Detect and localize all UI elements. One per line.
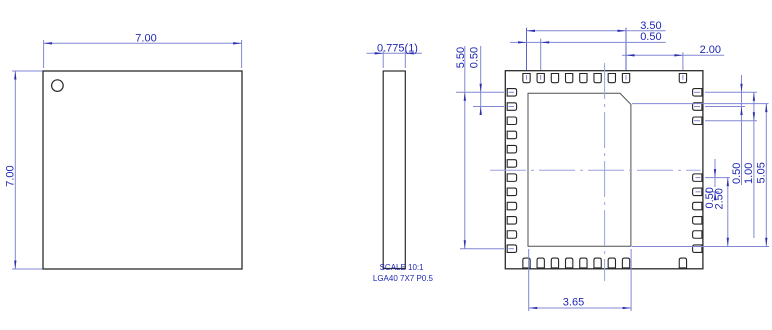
pad right 4	[693, 174, 702, 182]
pad top 6	[594, 74, 601, 83]
svg-text:LGA40 7X7 P0.5: LGA40 7X7 P0.5	[373, 274, 434, 283]
pad bottom 4	[566, 258, 573, 268]
svg-text:2.00: 2.00	[700, 44, 721, 56]
pad top 1	[523, 74, 530, 83]
extension line right pad 5 center	[705, 191, 719, 193]
dimension line 3.50	[527, 30, 666, 32]
extension tick inside top pad 2	[540, 75, 542, 80]
pad right 8	[693, 231, 702, 239]
extension tick inside top pad 1	[526, 75, 528, 80]
pad bottom 3	[551, 258, 558, 268]
dimension line 3.65	[529, 307, 631, 309]
bottom view package body outline	[505, 71, 703, 269]
top view package body outline	[43, 71, 242, 269]
pad right 1	[693, 89, 702, 97]
svg-text:0.50: 0.50	[640, 31, 661, 43]
pad left 11	[507, 231, 516, 239]
extension line exposed pad bottom level	[632, 246, 769, 248]
extension line top pad 9 center	[682, 52, 684, 70]
pad right 5	[693, 188, 702, 196]
dimension line 2.00	[622, 54, 724, 56]
pad bottom 8	[622, 258, 629, 268]
dimension line 5.50 left	[464, 46, 466, 249]
pad right 6	[693, 202, 702, 210]
pad bottom 6	[594, 258, 601, 268]
dimension line 5.05 right	[765, 104, 767, 247]
pad left 1	[507, 89, 516, 97]
extension line chamfer level	[632, 103, 769, 105]
extension line right pad 4 center	[705, 177, 730, 179]
pad bottom 2	[537, 258, 544, 268]
svg-text:7.00: 7.00	[135, 33, 156, 45]
extension line right pad 3 center	[705, 120, 757, 122]
svg-text:0.50: 0.50	[468, 47, 480, 68]
svg-text:SCALE 10:1: SCALE 10:1	[380, 263, 425, 272]
pad left 6	[507, 160, 516, 168]
extension line bottom edge for 7.00 height	[12, 268, 43, 270]
dimension line 0.775 thickness	[367, 52, 422, 54]
extension line left pad 2 center	[473, 106, 504, 108]
extension tick inside top pad 9	[682, 75, 684, 80]
exposed thermal pad outline with chamfer	[528, 93, 631, 246]
pad left 8	[507, 188, 516, 196]
dimension line 0.50 left pitch	[480, 46, 482, 115]
pad right 7	[693, 217, 702, 225]
horizontal centerline	[490, 169, 701, 171]
pad top 7	[608, 74, 615, 83]
extension tick inside left pad 2	[509, 106, 515, 108]
pin 1 marker circle	[52, 80, 64, 92]
dimension line 7.00 height	[14, 71, 16, 269]
svg-text:5.05: 5.05	[755, 162, 767, 183]
pad bottom 1	[523, 258, 530, 268]
dimension line 0.50 inner right	[714, 159, 716, 187]
svg-text:2.50: 2.50	[713, 188, 725, 209]
extension line exposed pad left edge	[528, 249, 530, 311]
pad top 3	[551, 74, 558, 83]
extension line top pad 1 center	[526, 28, 528, 70]
extension line left pad 1 center	[456, 91, 504, 93]
vertical centerline	[604, 63, 606, 281]
svg-text:5.50: 5.50	[455, 47, 467, 68]
svg-text:7.00: 7.00	[5, 165, 17, 186]
extension line top pad 2 center	[540, 39, 542, 70]
extension tick inside top pad 8	[625, 75, 627, 80]
svg-text:0.50: 0.50	[731, 163, 743, 184]
extension tick inside right pad 3	[694, 120, 700, 122]
svg-text:0.775(1): 0.775(1)	[377, 42, 418, 54]
extension line left pad 12 center	[460, 248, 504, 250]
pad right 2	[693, 103, 702, 111]
extension tick inside right pad 4	[696, 177, 701, 179]
pad right 9	[693, 245, 702, 253]
pad left 9	[507, 202, 516, 210]
svg-text:3.65: 3.65	[563, 296, 584, 308]
extension line right for 0.775 thickness	[404, 51, 406, 69]
extension line exposed pad right edge	[630, 249, 632, 311]
side view package body outline	[383, 71, 405, 269]
pad left 3	[507, 117, 516, 125]
pad right 3	[693, 117, 702, 125]
pad bottom 5	[580, 258, 587, 268]
pad top 8	[622, 74, 629, 83]
dimension line 0.50 right pitch	[741, 75, 743, 185]
svg-text:1.00: 1.00	[743, 163, 755, 184]
dimension line 1.00 right	[753, 92, 755, 238]
pad left 4	[507, 131, 516, 139]
extension line top edge for 7.00 height	[12, 70, 43, 72]
extension tick inside right pad 1	[694, 91, 700, 93]
pad left 12	[507, 245, 516, 253]
extension line right edge for 7.00 width	[241, 40, 243, 68]
extension tick inside right pad 5	[696, 191, 701, 193]
svg-text:3.50: 3.50	[640, 20, 661, 32]
pad bottom 9	[679, 258, 686, 268]
pad top 4	[566, 74, 573, 83]
extension line left edge for 7.00 width	[43, 40, 45, 68]
pad bottom 7	[608, 258, 615, 268]
pad top 9	[679, 74, 686, 83]
pad left 5	[507, 145, 516, 153]
pad left 10	[507, 217, 516, 225]
pad top 2	[537, 74, 544, 83]
dimension line 0.50 top pitch	[510, 41, 666, 43]
dimension line 7.00 width	[44, 42, 242, 44]
extension tick inside right pad 2	[694, 106, 700, 108]
extension line left for 0.775 thickness	[382, 51, 384, 69]
pad top 5	[580, 74, 587, 83]
extension tick inside left pad 1	[509, 91, 515, 93]
dimension line 2.50 right	[727, 178, 729, 247]
pad left 2	[507, 103, 516, 111]
extension line top pad 8 center	[625, 28, 627, 70]
dimension line 0.50 inner right lower stub	[714, 192, 716, 199]
extension line right pad 2 center	[705, 106, 745, 108]
extension line right pad 1 center	[705, 91, 757, 93]
extension tick inside left pad 12	[509, 248, 515, 250]
pad left 7	[507, 174, 516, 182]
